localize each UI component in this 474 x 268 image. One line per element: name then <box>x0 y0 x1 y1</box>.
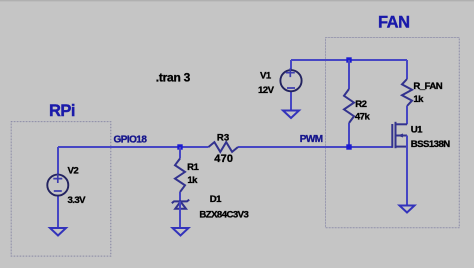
ground under V2 <box>50 228 66 236</box>
label R3 <box>217 132 229 143</box>
label RPi <box>49 102 75 120</box>
zener diode D1 <box>172 197 189 229</box>
label V1 <box>260 71 272 82</box>
drain stub <box>396 123 408 125</box>
source lead <box>406 136 408 206</box>
svg-text:D1: D1 <box>210 194 222 205</box>
svg-text:GPIO18: GPIO18 <box>114 135 148 146</box>
svg-text:V1: V1 <box>260 71 272 82</box>
label BSS138N <box>411 139 450 150</box>
label 47k <box>355 111 371 122</box>
svg-text:V2: V2 <box>68 165 79 176</box>
svg-text:3.3V: 3.3V <box>68 195 87 206</box>
svg-text:47k: 47k <box>355 111 371 122</box>
source stub <box>396 146 408 148</box>
voltage source V2 <box>57 147 59 228</box>
label 1k (R_FAN) <box>413 94 424 105</box>
label 470 <box>214 153 233 165</box>
label U1 <box>411 124 423 135</box>
svg-text:12V: 12V <box>258 85 275 96</box>
svg-text:.tran 3: .tran 3 <box>156 71 191 85</box>
label R_FAN <box>413 81 442 92</box>
transistor U1 nmos <box>392 122 407 206</box>
wire PWM rail (GPIO18 to R3) <box>58 146 209 148</box>
svg-text:R3: R3 <box>217 132 229 143</box>
box RPi <box>11 122 111 257</box>
spice directive .tran 3 <box>156 71 191 85</box>
label D1 <box>210 194 222 205</box>
voltage source V1 <box>290 60 292 111</box>
svg-text:RPi: RPi <box>49 102 75 120</box>
svg-text:BZX84C3V3: BZX84C3V3 <box>199 209 248 220</box>
ground under U1 <box>400 206 415 213</box>
svg-text:1k: 1k <box>413 94 424 105</box>
svg-text:470: 470 <box>214 153 233 165</box>
label BZX84C3V3 <box>199 209 248 220</box>
junction node PWM/R2 <box>346 144 351 149</box>
label 1k <box>187 175 198 186</box>
net label PWM <box>300 134 323 145</box>
net label GPIO18 <box>114 135 148 146</box>
resistor R3 <box>209 142 239 152</box>
svg-text:U1: U1 <box>411 124 423 135</box>
resistor R_FAN <box>402 60 412 124</box>
svg-text:1k: 1k <box>187 175 198 186</box>
wire PWM rail (R3 to gate) <box>238 146 393 148</box>
svg-text:PWM: PWM <box>300 134 323 145</box>
bulk stub <box>396 135 408 137</box>
junction node 12V/R2 <box>346 57 351 62</box>
svg-text:FAN: FAN <box>378 14 410 32</box>
svg-text:R2: R2 <box>355 99 366 110</box>
svg-text:R1: R1 <box>187 162 199 173</box>
wire 12V rail <box>291 59 407 61</box>
resistor R1 <box>175 147 185 197</box>
ground under V1 <box>283 111 299 119</box>
label 3.3V <box>68 195 87 206</box>
label FAN <box>378 14 410 32</box>
junction node GPIO18/R1 <box>177 144 182 149</box>
ground under D1 <box>173 228 189 236</box>
arrow of U1 bulk <box>397 134 403 138</box>
label R1 <box>187 162 199 173</box>
label R2 <box>355 99 366 110</box>
label 12V <box>258 85 275 96</box>
box FAN <box>326 38 460 228</box>
top edge line <box>0 0 474 1</box>
resistor R2 <box>344 60 354 147</box>
channel bar <box>395 122 397 148</box>
gate bar <box>391 124 393 148</box>
label V2 <box>68 165 79 176</box>
svg-text:BSS138N: BSS138N <box>411 139 450 150</box>
svg-text:R_FAN: R_FAN <box>413 81 442 92</box>
